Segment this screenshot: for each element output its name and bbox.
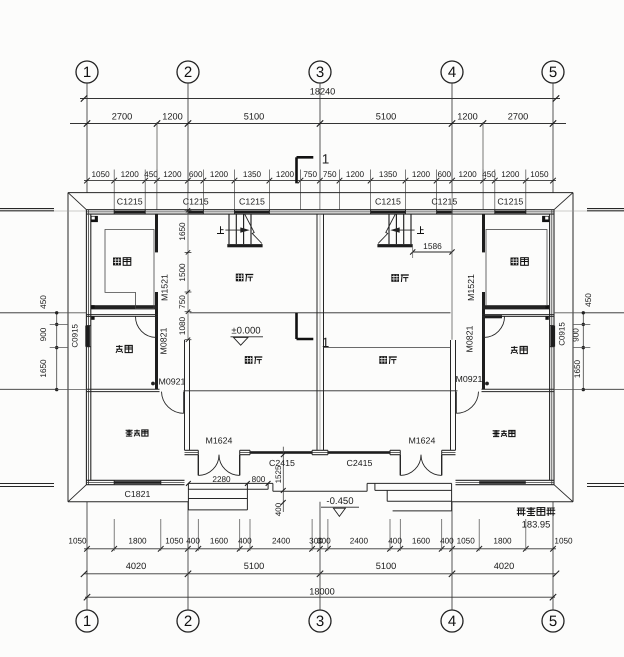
label C1821 <box>125 489 151 499</box>
bottom dim row A <box>68 519 573 552</box>
svg-text:M1624: M1624 <box>206 435 233 445</box>
label M1624 left <box>206 435 233 445</box>
svg-text:C2415: C2415 <box>347 458 373 468</box>
svg-text:450: 450 <box>39 295 48 309</box>
svg-text:1800: 1800 <box>128 537 147 546</box>
svg-text:1: 1 <box>83 613 91 630</box>
building area text 183.95 <box>517 507 555 529</box>
label M1521 right <box>466 274 476 301</box>
svg-text:183.95: 183.95 <box>522 519 551 530</box>
svg-text:1050: 1050 <box>457 537 476 546</box>
svg-text:1600: 1600 <box>412 537 431 546</box>
svg-text:1: 1 <box>322 152 330 167</box>
top wall windows C1215 glass bars <box>114 210 526 214</box>
svg-text:C1215: C1215 <box>183 197 209 207</box>
stair dim 1586 right <box>410 241 455 258</box>
svg-text:M0821: M0821 <box>159 327 169 354</box>
top exterior wall faces <box>86 210 554 214</box>
section mark 1 middle <box>297 313 330 350</box>
right hall line <box>324 346 451 348</box>
svg-text:1200: 1200 <box>162 111 182 121</box>
svg-text:1350: 1350 <box>243 170 262 179</box>
kitchen/bath partition wall right unit <box>482 214 485 389</box>
svg-text:1050: 1050 <box>91 170 110 179</box>
axis 3 top circle and line <box>309 61 331 193</box>
label M1624 right <box>408 435 435 445</box>
svg-text:1080: 1080 <box>178 316 187 335</box>
dimension row 2700/1200/5100/5100/1200/2700 <box>70 111 566 180</box>
level mark -0.450 <box>321 496 359 516</box>
party wall axis 3 <box>317 214 324 450</box>
porch dim 1525 400 <box>274 447 286 516</box>
svg-text:4: 4 <box>448 64 456 81</box>
svg-text:400: 400 <box>388 537 402 546</box>
left exterior wall faces <box>86 210 90 485</box>
room label dining right <box>391 274 409 282</box>
window C2415 left <box>250 450 312 454</box>
svg-text:-0.450: -0.450 <box>326 496 353 507</box>
svg-text:C1215: C1215 <box>239 197 265 207</box>
window C2415 right <box>328 450 390 454</box>
svg-text:1650: 1650 <box>39 359 48 378</box>
svg-text:M0821: M0821 <box>465 325 475 352</box>
svg-text:4020: 4020 <box>494 561 514 571</box>
axis 1 top circle and line <box>76 61 98 193</box>
svg-text:450: 450 <box>482 170 496 179</box>
svg-text:1650: 1650 <box>178 222 187 241</box>
room label living left <box>245 356 262 364</box>
svg-text:5100: 5100 <box>244 561 264 571</box>
porch steps left <box>188 483 268 510</box>
room label bath left <box>116 345 132 353</box>
svg-text:1800: 1800 <box>493 537 512 546</box>
room label bath right <box>511 346 527 354</box>
left neighbour wall stub bottom <box>0 484 54 487</box>
porch steps right <box>375 483 452 511</box>
right unit hall east wall <box>451 340 456 450</box>
room label kitchen right <box>511 258 529 266</box>
eave corner diagonals <box>68 193 573 502</box>
svg-text:5100: 5100 <box>376 561 396 571</box>
svg-text:5: 5 <box>549 613 557 630</box>
svg-text:2400: 2400 <box>350 537 369 546</box>
door M1624 left <box>198 455 239 476</box>
svg-text:1050: 1050 <box>554 537 573 546</box>
right neighbour wall stub top <box>554 209 624 211</box>
svg-text:3: 3 <box>316 613 324 630</box>
svg-text:1586: 1586 <box>423 241 442 251</box>
axis 5 bottom circle and line <box>542 502 564 632</box>
svg-text:18000: 18000 <box>309 587 335 597</box>
flue symbol right kitchen <box>542 216 549 222</box>
room label kitchen left <box>113 258 131 266</box>
kitchen counter right <box>486 230 547 306</box>
svg-text:750: 750 <box>178 295 187 309</box>
kitchen/bath partition wall left unit <box>155 214 158 389</box>
svg-text:1200: 1200 <box>458 170 477 179</box>
svg-text:1200: 1200 <box>346 170 365 179</box>
svg-text:1: 1 <box>83 64 91 81</box>
axis 4 bottom circle and line <box>441 502 463 632</box>
svg-text:1200: 1200 <box>501 170 520 179</box>
right exterior wall faces <box>550 210 554 485</box>
eave overhang outline <box>68 193 573 502</box>
svg-text:1: 1 <box>322 335 330 350</box>
bottom dim row C 18000 <box>84 587 556 601</box>
bottom dim row B 4020/5100 <box>81 551 559 577</box>
svg-text:1525: 1525 <box>274 465 283 483</box>
svg-text:1500: 1500 <box>178 263 187 282</box>
stair up label right <box>417 226 424 233</box>
svg-text:1200: 1200 <box>457 111 477 121</box>
svg-text:18240: 18240 <box>310 86 336 96</box>
svg-text:1200: 1200 <box>163 170 182 179</box>
dimension row overall 18240 <box>80 86 560 101</box>
stair left unit <box>225 214 262 247</box>
svg-text:1350: 1350 <box>379 170 398 179</box>
door M0821 left <box>135 316 156 337</box>
svg-text:600: 600 <box>437 170 451 179</box>
svg-text:1650: 1650 <box>573 359 582 378</box>
room label bedroom right <box>493 430 515 437</box>
svg-text:1200: 1200 <box>412 170 431 179</box>
section mark 1 top <box>297 152 330 184</box>
svg-text:2700: 2700 <box>112 111 132 121</box>
room label bedroom left <box>126 430 148 437</box>
svg-text:1050: 1050 <box>530 170 549 179</box>
svg-text:M1624: M1624 <box>408 435 435 445</box>
axis 1 bottom circle and line <box>76 502 98 632</box>
svg-text:2700: 2700 <box>508 111 528 121</box>
axis 5 top circle and line <box>542 61 564 193</box>
svg-text:M0921: M0921 <box>159 377 186 387</box>
axis-2 dim chain left <box>178 208 191 342</box>
kitchen south wall / bath north wall left <box>86 305 158 316</box>
porch dim 2280 800 <box>186 475 271 486</box>
flue symbol left kitchen <box>91 216 98 222</box>
svg-text:800: 800 <box>252 475 266 484</box>
svg-text:2: 2 <box>184 64 192 81</box>
svg-text:300: 300 <box>317 537 331 546</box>
door M0921 right <box>456 382 489 414</box>
stair up label left <box>217 226 224 233</box>
svg-text:2400: 2400 <box>272 537 291 546</box>
svg-text:750: 750 <box>323 170 337 179</box>
svg-text:5100: 5100 <box>244 111 264 121</box>
right neighbour wall stub bottom <box>587 484 624 487</box>
door M1624 right <box>400 455 441 476</box>
svg-text:2280: 2280 <box>212 475 231 484</box>
column dots right <box>545 305 548 320</box>
svg-text:C0915: C0915 <box>71 323 80 347</box>
entry bay south wall <box>185 450 456 454</box>
door M0921 left <box>151 382 184 414</box>
svg-text:600: 600 <box>189 170 203 179</box>
axis 2 bottom circle and line <box>177 502 199 632</box>
level mark 0.000 <box>231 326 264 346</box>
axis-2 line right <box>451 210 453 340</box>
svg-text:C1215: C1215 <box>375 197 401 207</box>
svg-text:400: 400 <box>274 502 283 516</box>
svg-text:M1521: M1521 <box>466 274 476 301</box>
svg-text:1050: 1050 <box>68 537 87 546</box>
kitchen counter left <box>105 230 154 309</box>
label M0821 left <box>159 327 169 354</box>
svg-text:1200: 1200 <box>210 170 229 179</box>
svg-text:900: 900 <box>572 328 581 342</box>
svg-text:4020: 4020 <box>126 561 146 571</box>
porch platform edge <box>188 483 451 491</box>
axis 4 top circle and line <box>441 61 463 193</box>
label M1521 left <box>160 274 170 301</box>
side dim chain left 450/900/1650 <box>0 295 86 392</box>
bottom wall right with window <box>456 480 555 484</box>
svg-text:2: 2 <box>184 613 192 630</box>
svg-text:3: 3 <box>316 64 324 81</box>
bedroom north wall line <box>86 389 554 391</box>
svg-text:400: 400 <box>238 537 252 546</box>
room label dining left <box>236 274 254 282</box>
bottom wall left with window C1821 <box>86 480 184 484</box>
svg-text:C1215: C1215 <box>497 197 523 207</box>
dimension row window chain 1050..750 <box>84 170 556 211</box>
side dim chain right 450/900/1650 <box>554 293 624 392</box>
svg-text:400: 400 <box>440 537 454 546</box>
svg-text:5: 5 <box>549 64 557 81</box>
svg-text:4: 4 <box>448 613 456 630</box>
svg-text:M0921: M0921 <box>456 374 483 384</box>
svg-text:1600: 1600 <box>210 537 229 546</box>
kitchen south wall / bath north wall right <box>482 305 554 316</box>
label C2415 left <box>269 458 295 468</box>
label M0921 left <box>159 377 186 387</box>
left neighbour wall stub top <box>0 209 86 211</box>
svg-text:400: 400 <box>186 537 200 546</box>
svg-text:450: 450 <box>584 293 593 307</box>
label C2415 right <box>347 458 373 468</box>
label M0921 right <box>456 374 483 384</box>
room label living right <box>379 356 397 364</box>
left unit hall west wall <box>185 340 190 450</box>
svg-text:C1215: C1215 <box>117 197 143 207</box>
svg-text:±0.000: ±0.000 <box>231 326 260 337</box>
axis 2 top circle and line <box>177 61 199 193</box>
label M0821 right <box>465 325 475 352</box>
label C0915 right <box>558 322 567 346</box>
svg-text:900: 900 <box>39 327 48 341</box>
label C0915 left <box>71 323 80 347</box>
svg-text:C1215: C1215 <box>431 197 457 207</box>
door M0821 right <box>484 315 505 337</box>
svg-text:1050: 1050 <box>165 537 184 546</box>
column dots left <box>91 305 94 320</box>
svg-text:5100: 5100 <box>376 111 396 121</box>
svg-text:M1521: M1521 <box>160 274 170 301</box>
axis 3 bottom circle and line <box>309 502 331 632</box>
window C0915 left <box>85 326 91 347</box>
svg-text:C0915: C0915 <box>558 322 567 346</box>
window C0915 right <box>550 326 556 347</box>
stair right unit <box>377 214 414 247</box>
dining-living divider line <box>0 312 624 314</box>
svg-text:450: 450 <box>144 170 158 179</box>
svg-text:1200: 1200 <box>276 170 295 179</box>
window labels C1215 <box>117 197 524 207</box>
svg-text:750: 750 <box>303 170 317 179</box>
svg-text:C1821: C1821 <box>125 489 151 499</box>
svg-text:1200: 1200 <box>121 170 140 179</box>
